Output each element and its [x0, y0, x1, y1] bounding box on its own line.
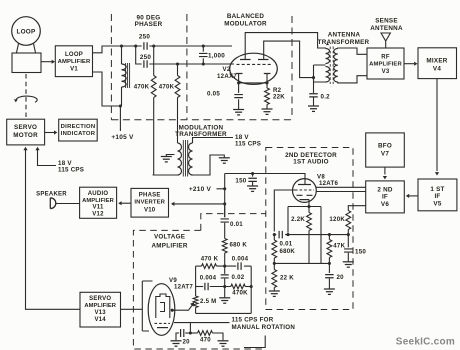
ground below 0.05 [233, 110, 244, 115]
wire V9 cathode to 115CPS line [174, 322, 230, 324]
ground below R2 [262, 109, 273, 114]
svg-text:SeekIC.com: SeekIC.com [396, 336, 455, 347]
capacitor C-250b (250) in second line [144, 60, 234, 68]
wire BFO to 2nd IF (arrow) [383, 167, 387, 179]
section label BALANCED MODULATOR [224, 13, 267, 28]
amplifier V11/V12 box (AUDIO AMPLIFIER) [80, 187, 117, 218]
label 150 (detector) [355, 249, 366, 256]
svg-text:SERVO: SERVO [89, 296, 111, 302]
wire T-mod secondary top lead (18V) [193, 138, 234, 144]
svg-text:IF: IF [382, 194, 388, 201]
label SERVO MOTOR [13, 124, 38, 139]
detector AF bus [274, 234, 276, 236]
tube V2 envelope (12AX7) [230, 53, 278, 84]
tube V9 plate structure [156, 294, 170, 318]
label +210 V [189, 186, 212, 193]
svg-text:INDICATOR: INDICATOR [61, 131, 96, 137]
loop antenna LOOP [12, 17, 41, 53]
wire V9 plate to potentiometer wiper (arrow) [172, 302, 194, 310]
svg-text:SPEAKER: SPEAKER [36, 191, 67, 197]
svg-text:PHASE: PHASE [139, 192, 161, 198]
label 250 (second) [140, 54, 152, 61]
svg-text:1,000: 1,000 [208, 53, 225, 60]
tube V9 cathode bar [157, 327, 168, 329]
svg-text:1ST AUDIO: 1ST AUDIO [293, 159, 329, 166]
capacitor C-0.004a (0.004) [238, 262, 251, 270]
label 2ND IF V6 [377, 187, 393, 208]
label 0.02 [232, 274, 245, 281]
resistor R-470Kc (470 K) [202, 264, 217, 269]
tube V2 cathode bars [236, 73, 271, 75]
amplifier V3 box (RF AMPLIFIER) [367, 48, 404, 79]
detector section dashed box (2ND DETECTOR) [266, 148, 353, 310]
wire +210 bus to phase inverter (arrow) [171, 202, 225, 206]
svg-text:470K: 470K [134, 84, 150, 91]
tube V8 diode plates [297, 194, 313, 196]
label 20 (voltage amp) [183, 339, 191, 346]
svg-text:115 CPS: 115 CPS [235, 140, 261, 147]
svg-text:AMPLIFIER: AMPLIFIER [84, 303, 116, 309]
svg-text:470: 470 [200, 336, 211, 343]
capacitor C-0.01b (0.01) [220, 219, 229, 239]
label 150 (modulator side) [235, 177, 246, 184]
svg-text:V7: V7 [381, 151, 389, 158]
svg-text:470K: 470K [159, 84, 175, 91]
wire V8 cathode down [308, 200, 310, 207]
wire servo motor to direction indicator (arrow) [45, 130, 58, 134]
svg-text:SENSE: SENSE [375, 18, 398, 25]
wire network middle-left [196, 286, 204, 288]
label 2.2K [291, 216, 305, 223]
wire loop amp upper output to phaser top line [93, 46, 142, 53]
oscillator V7 box (BFO) [366, 133, 405, 167]
tube V9 grid (dashed) [155, 322, 171, 324]
svg-text:12AT6: 12AT6 [319, 180, 338, 187]
svg-text:V11: V11 [92, 205, 104, 211]
svg-text:MANUAL ROTATION: MANUAL ROTATION [232, 324, 296, 331]
wire secondary to RF amplifier [338, 48, 367, 83]
transformer T-mod primary winding [178, 143, 182, 175]
label 1ST IF V5 [430, 186, 444, 207]
node dot V2 left cathode [237, 81, 240, 84]
svg-text:V14: V14 [94, 317, 106, 323]
node dots at 1,000 cap [202, 44, 205, 65]
svg-text:2 ND: 2 ND [377, 187, 393, 194]
label 470K (right) [159, 84, 175, 91]
wire cathode tap down [189, 323, 191, 333]
svg-text:680K: 680K [280, 248, 296, 255]
section label ANTENNA TRANSFORMER [318, 32, 370, 47]
wire network bottom edge [196, 312, 252, 314]
ground below 22K [269, 291, 280, 296]
capacitor C-0.05 (0.05) [234, 83, 243, 109]
power +105 V stem [119, 106, 121, 131]
wire T-mod primary ground stub [166, 155, 174, 157]
node dot +105V junction [119, 104, 122, 107]
node dot 47K top [328, 233, 331, 236]
section label 90 DEG PHASER [135, 15, 163, 29]
label 47K [333, 243, 345, 250]
wire T-mod primary bottom to 470K chain [153, 174, 178, 176]
wire RF amp to mixer (arrow) [404, 62, 418, 66]
resistor R-470Ka (470K) [151, 46, 177, 175]
wire network top-left [196, 265, 202, 267]
label 680K (detector) [280, 248, 296, 255]
label 470K (network lower) [232, 290, 248, 297]
svg-text:IF: IF [434, 193, 440, 200]
label 18 V 115 CPS (secondary) [235, 134, 261, 148]
label 20 (detector) [337, 274, 345, 281]
phase inverter V10 box [131, 188, 169, 217]
svg-text:V3: V3 [382, 69, 390, 75]
label 0.05 [207, 90, 220, 97]
svg-text:TRANSFORMER: TRANSFORMER [318, 39, 370, 46]
ground below 150 cap [247, 186, 258, 191]
wire +210V vertical bus [224, 174, 226, 218]
section boundary dashed horizontal [111, 119, 292, 121]
label 22 K [280, 275, 294, 282]
svg-text:0.05: 0.05 [207, 90, 220, 97]
wire network top-mid [217, 265, 237, 267]
svg-text:AMPLIFIER: AMPLIFIER [369, 62, 402, 68]
resistor R-47K (47K) [327, 235, 332, 264]
svg-text:SERVO: SERVO [14, 124, 37, 131]
node dot phaser top at 470K [152, 44, 155, 47]
amplifier V1 box [55, 46, 92, 77]
svg-text:BFO: BFO [378, 143, 392, 150]
svg-text:2.5 M: 2.5 M [200, 298, 217, 305]
wire 18V feed to servo motor (arrow) [35, 147, 56, 166]
ground below 20 (voltage amp) [171, 341, 182, 346]
resistor R2 (22K) [265, 83, 270, 109]
transformer T-mod core [183, 140, 187, 177]
wire V2 cathodes to bias network [239, 74, 267, 83]
wire speaker to audio amplifier [56, 203, 80, 205]
svg-text:680 K: 680 K [230, 241, 248, 248]
label 1,000 [208, 53, 225, 60]
resistor R-470Kb (470K) [175, 64, 180, 143]
capacitor C-1000 (1,000) between phaser lines [199, 46, 208, 64]
label AUDIO AMPLIFIER V11 V12 [82, 191, 114, 217]
label VOLTAGE AMPLIFIER [152, 234, 188, 250]
capacitor C-0.004b (0.004) [205, 283, 231, 291]
label 250 (top) [139, 34, 151, 41]
wire primary center tap to bypass [314, 65, 326, 93]
label 470 [200, 336, 211, 343]
label BFO V7 [378, 143, 392, 158]
svg-text:0.2: 0.2 [321, 93, 331, 100]
transformer T-mod secondary winding [189, 143, 193, 175]
svg-text:MODULATOR: MODULATOR [224, 21, 267, 28]
wire V2 right plate to antenna transformer primary bottom [264, 41, 314, 78]
node dot 47K bottom [328, 262, 331, 265]
node dot center-tap/plate junction [312, 76, 315, 79]
ground at T-mod primary [161, 157, 172, 162]
label V2 12AX7 [217, 66, 237, 80]
amplifier V13/V14 box (SERVO AMPLIFIER) [80, 292, 121, 327]
tube V8 plate bar [298, 184, 311, 186]
tube V8 grid (dashed) [295, 189, 314, 191]
label MIXER V4 [426, 58, 447, 73]
transformer T-ant secondary winding [334, 49, 338, 83]
ground below 470 [218, 341, 229, 346]
wire +210V bus to detector plate [225, 174, 305, 185]
svg-text:INVERTER: INVERTER [134, 200, 165, 206]
wire bus to 0.01 cap [224, 204, 226, 217]
wire network left edge upper [195, 266, 197, 296]
svg-text:VOLTAGE: VOLTAGE [154, 234, 185, 241]
svg-text:ANTENNA: ANTENNA [370, 25, 403, 32]
svg-text:22 K: 22 K [280, 275, 294, 282]
wire loop box to loop amplifier (arrow) [41, 60, 55, 64]
svg-text:150: 150 [355, 249, 366, 256]
capacitor C-0.2 (0.2) [309, 94, 318, 106]
section label MODULATION TRANSFORMER [175, 125, 227, 139]
svg-text:MIXER: MIXER [426, 58, 447, 65]
svg-text:PHASER: PHASER [135, 21, 163, 28]
wire network right edge [250, 266, 252, 313]
node dot network right [250, 285, 253, 288]
wire loop amp lower output to +105V node [93, 72, 121, 106]
transformer T-ant primary upper winding [326, 49, 330, 64]
mixer V4 box [418, 48, 457, 79]
svg-text:MOTOR: MOTOR [13, 132, 38, 139]
svg-text:250: 250 [139, 34, 151, 41]
label SERVO AMPLIFIER V13 V14 [84, 296, 116, 323]
wire primary upper top lead [322, 47, 326, 50]
svg-text:0.02: 0.02 [232, 274, 245, 281]
node dot network top [223, 265, 226, 268]
wire T-mod secondary bottom to ground [193, 155, 225, 175]
section boundary dashed line C [291, 16, 293, 120]
wire servo amplifier output to V9 grid circuit [121, 308, 143, 310]
wire V2 left plate to antenna transformer primary top [245, 33, 322, 60]
wire branch down to second phaser line [136, 46, 142, 64]
capacitor C-0.02 (0.02) [221, 266, 229, 286]
motor box (SERVO MOTOR) [7, 119, 45, 145]
watermark SeekIC.com [396, 336, 455, 347]
node dot V9 plate output [171, 309, 174, 312]
node dot AVC node [273, 262, 276, 265]
rotation arrow symbol [14, 96, 37, 102]
wire +210V label stub [217, 188, 225, 190]
resistor R-680Kb (680K) [222, 239, 227, 267]
svg-text:20: 20 [337, 274, 345, 281]
wire mixer to 1st IF (arrow) [435, 79, 439, 176]
label PHASE INVERTER V10 [134, 192, 165, 213]
node dot bus right of cap [286, 233, 289, 236]
label 18 V 115 CPS (servo) [58, 160, 84, 174]
node dot network middle [223, 285, 226, 288]
capacitor C-0.01a (0.01) coupling [279, 231, 348, 239]
wire AVC line [274, 262, 329, 264]
svg-text:470 K: 470 K [201, 255, 219, 262]
svg-text:V6: V6 [381, 201, 389, 208]
wire V9 grid input loop [142, 281, 152, 331]
tube V9 envelope (12AT7) [148, 284, 175, 336]
amplifier V5 box (1ST IF) [418, 179, 457, 211]
label RF AMPLIFIER V3 [369, 55, 402, 75]
wire servo amplifier to servo motor (arrow) [23, 147, 80, 309]
svg-text:V12: V12 [92, 211, 104, 217]
label 680 K [230, 241, 248, 248]
capacitor C-150b (150) [344, 235, 353, 262]
wire phase inverter to audio amp (arrow) [118, 201, 131, 205]
label 2.5 M [200, 298, 217, 305]
svg-text:AUDIO: AUDIO [88, 191, 109, 197]
node dot bus left [273, 233, 276, 236]
label 115 CPS FOR MANUAL ROTATION [232, 316, 296, 331]
transformer T-ant tuning arrow [326, 43, 329, 46]
tube V2 grid (dashed) [237, 63, 272, 65]
svg-text:AMPLIFIER: AMPLIFIER [82, 198, 114, 204]
svg-text:V10: V10 [144, 207, 156, 213]
svg-text:47K: 47K [333, 243, 345, 250]
tube V8 cathode bar [300, 199, 310, 201]
transformer T-ant core (dashed) [330, 47, 333, 85]
wire 1st IF to 2nd IF (arrow) [406, 194, 418, 198]
wire cathode bus [288, 207, 321, 264]
svg-text:0.01: 0.01 [230, 221, 243, 228]
svg-text:115 CPS: 115 CPS [58, 167, 84, 174]
label 0.01 (voltage amp) [230, 221, 243, 228]
section boundary dashed line A [110, 14, 112, 120]
speaker symbol [50, 198, 56, 209]
svg-text:RF: RF [381, 55, 390, 61]
sense antenna symbol [381, 33, 390, 48]
label +105 V [111, 134, 134, 141]
svg-text:115 CPS FOR: 115 CPS FOR [232, 316, 274, 323]
svg-text:0.004: 0.004 [200, 274, 217, 281]
section boundary dashed line B [186, 14, 188, 120]
label SENSE ANTENNA [370, 18, 403, 33]
label SPEAKER [36, 191, 67, 197]
node dot cathode tap [189, 331, 192, 334]
svg-text:22K: 22K [273, 94, 285, 101]
capacitor C-20a (20) [325, 263, 334, 288]
node dot V8 cathode [307, 205, 310, 208]
svg-text:ANTENNA: ANTENNA [328, 32, 361, 39]
ground below 20 [324, 289, 335, 294]
svg-text:LOOP: LOOP [16, 29, 36, 36]
node dot V2 right cathode [265, 81, 268, 84]
label 470K (left) [134, 84, 150, 91]
wire V8 grid to coupling cap [274, 190, 295, 232]
capacitor C-20b (20) [176, 329, 190, 340]
iron-core inductor (phaser) [122, 46, 130, 106]
tube V8 envelope (12AT6) [293, 179, 317, 203]
node dot at 150 cap [251, 172, 254, 175]
section label 2ND DETECTOR 1ST AUDIO [285, 152, 337, 166]
node dot phaser top at inductor [120, 44, 123, 47]
label 0.004 (top) [232, 255, 249, 262]
indicator box (DIRECTION INDICATOR) [59, 119, 97, 141]
ground at network [219, 298, 230, 303]
label 470 K (network) [201, 255, 219, 262]
svg-text:12AX7: 12AX7 [217, 73, 237, 80]
wire stub at image bottom [244, 336, 265, 348]
resistor R-22K (22 K) [272, 263, 277, 290]
label DIRECTION INDICATOR [61, 124, 96, 137]
amplifier V6 box (2ND IF) [366, 181, 405, 213]
svg-text:V4: V4 [433, 66, 441, 73]
ground at T-mod secondary [219, 158, 230, 163]
capacitor C-150a (150) [248, 174, 257, 186]
svg-text:V1: V1 [70, 66, 78, 72]
label LOOP AMPLIFIER V1 [58, 52, 91, 72]
mechanical shaft (dashed) loop to servo motor [25, 74, 27, 119]
resistor R-2.2K (2.2K) [307, 207, 312, 264]
tube V2 plate bars [240, 59, 269, 61]
svg-text:150: 150 [235, 177, 246, 184]
svg-text:12AT7: 12AT7 [174, 283, 193, 290]
svg-text:V5: V5 [433, 200, 441, 207]
label V9 12AT7 [169, 277, 193, 290]
loop coupling box [12, 53, 41, 73]
svg-text:20: 20 [183, 339, 191, 346]
label 0.2 [321, 93, 331, 100]
svg-text:AMPLIFIER: AMPLIFIER [58, 59, 91, 65]
svg-text:0.004: 0.004 [232, 255, 249, 262]
resistor R-470 (470) [190, 331, 223, 341]
node dot phase-inverter tap [223, 202, 226, 205]
node dot +210V [223, 187, 226, 190]
svg-text:470K: 470K [232, 290, 248, 297]
capacitor C-250a (250) in top line [144, 42, 232, 50]
svg-text:120K: 120K [329, 216, 345, 223]
svg-text:+210 V: +210 V [189, 186, 212, 193]
resistor R-470Kd (470K) [231, 284, 251, 289]
svg-text:0.01: 0.01 [280, 240, 293, 247]
resistor R-680Ka (680K) [272, 235, 277, 264]
ground below 150 [343, 262, 354, 267]
wire V8 outputs to 2nd IF [316, 187, 366, 191]
voltage amplifier section dashed boundary [133, 214, 265, 349]
svg-text:250: 250 [140, 54, 152, 61]
svg-text:BALANCED: BALANCED [227, 13, 265, 20]
label 0.004 (middle) [200, 274, 217, 281]
label R2 22K [273, 87, 285, 101]
svg-text:+105 V: +105 V [111, 134, 134, 141]
svg-text:AMPLIFIER: AMPLIFIER [152, 242, 188, 249]
node dot second line at 470K [176, 62, 179, 65]
node dot 120K bottom [347, 233, 350, 236]
label V8 12AT6 [317, 173, 338, 187]
node dot phaser top at branch [134, 44, 137, 47]
label 120K [329, 216, 345, 223]
ground below 0.2 [308, 106, 319, 111]
svg-text:1 ST: 1 ST [430, 186, 444, 193]
svg-text:LOOP: LOOP [65, 52, 83, 58]
wire network ground stem [224, 287, 226, 298]
svg-text:V13: V13 [94, 310, 106, 316]
resistor R-120K (120K) [346, 206, 366, 235]
label 0.01 (detector) [280, 240, 293, 247]
transformer T-ant primary lower winding [326, 67, 330, 83]
svg-text:DIRECTION: DIRECTION [61, 124, 96, 130]
svg-text:2.2K: 2.2K [291, 216, 305, 223]
potentiometer R-2.5M (2.5M) [193, 296, 198, 313]
